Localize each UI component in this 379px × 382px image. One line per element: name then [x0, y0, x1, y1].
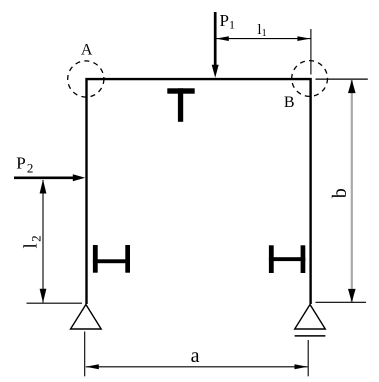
svg-text:b: b	[329, 188, 351, 198]
svg-text:B: B	[284, 94, 295, 111]
svg-text:a: a	[191, 345, 200, 367]
svg-text:A: A	[81, 42, 93, 59]
